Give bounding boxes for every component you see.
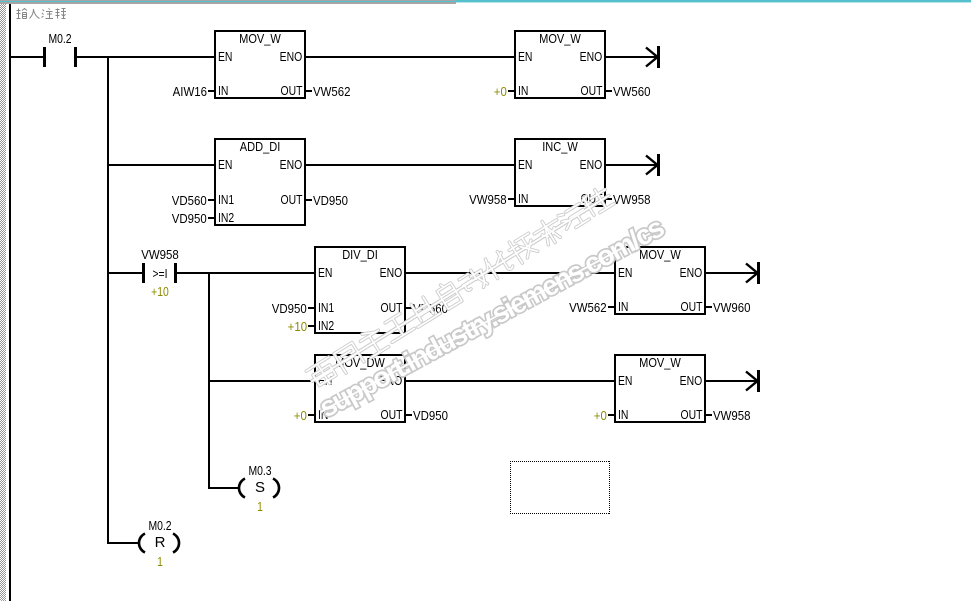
svg-text:support.industry.siemens.com/c: support.industry.siemens.com/cs	[314, 211, 669, 423]
